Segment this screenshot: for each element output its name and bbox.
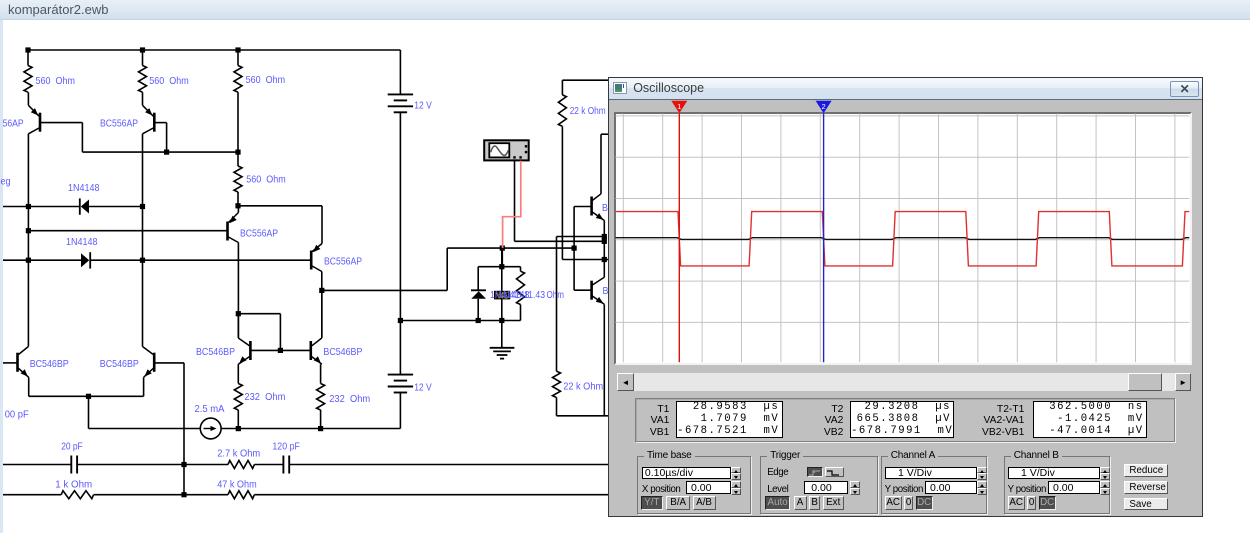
- node top rail mid: [140, 47, 145, 52]
- node D3 bottom: [476, 318, 481, 323]
- svg-text:560 Ohm: 560 Ohm: [36, 75, 76, 87]
- wire current source to Q7 node: [236, 426, 241, 431]
- graticule: [614, 112, 1192, 365]
- wire output row to probe riser: [322, 289, 447, 291]
- node top rail right: [235, 47, 240, 52]
- node D4 top: [499, 264, 504, 269]
- wire T3 collector column: [237, 243, 239, 339]
- node row1 right: [140, 204, 145, 209]
- resistor R10 of diode network: [520, 267, 522, 272]
- node T4 collector output: [319, 288, 324, 293]
- resistor R2 560 Ohm: [139, 66, 147, 93]
- wire H1: [557, 236, 605, 238]
- time base group: [637, 456, 751, 514]
- wire diode network bottom: [478, 320, 520, 322]
- wire T4 collector column: [321, 272, 323, 339]
- resistor R3 560 Ohm: [234, 66, 242, 93]
- svg-text:BC546BP: BC546BP: [196, 346, 235, 358]
- resistor R1 560 Ohm: [24, 66, 32, 93]
- wire V1 column with lower 22k: [556, 237, 558, 372]
- resistor R6 232 Ohm: [317, 384, 325, 411]
- transistor T1 BC556AP: [27, 92, 29, 105]
- diode D4 1N4148 (selected): [501, 248, 503, 291]
- svg-text:BC546BP: BC546BP: [30, 358, 69, 370]
- channel B group: [1004, 456, 1110, 514]
- svg-text:BC556AP: BC556AP: [324, 256, 362, 268]
- node emitters: [86, 394, 91, 399]
- node battery column tap: [398, 318, 403, 323]
- diode D2 1N4148: [89, 252, 91, 268]
- node Q7/Q8 base: [278, 348, 283, 353]
- wire row 1 right: [89, 206, 143, 208]
- wire row 3 to T4 base: [90, 259, 311, 261]
- svg-text:00 pF: 00 pF: [5, 409, 29, 421]
- node T2 base junction: [164, 150, 169, 155]
- wire H2 probe-A to output transistors: [515, 240, 605, 242]
- wire diode network top: [478, 266, 520, 268]
- wire R1 top: [27, 50, 29, 66]
- wire tail current feed: [88, 396, 90, 428]
- node base rail right: [235, 150, 240, 155]
- readouts: [635, 398, 1176, 442]
- resistor R9 47 k Ohm: [228, 491, 254, 499]
- transistor Q7 BC546BP (mirrored): [237, 314, 239, 338]
- wire battery to diode network: [400, 320, 478, 322]
- wire Q6 base column down: [183, 363, 185, 495]
- wire Q9 base column: [573, 207, 575, 291]
- resistor R7 2.7 k Ohm: [228, 461, 254, 469]
- current source I1 2.5 mA: [200, 418, 221, 439]
- wire probe B (red): [503, 161, 521, 248]
- svg-text:560 Ohm: 560 Ohm: [149, 75, 189, 87]
- node row2 left: [26, 228, 31, 233]
- transistor Q10 BC546BP: [590, 281, 593, 300]
- wire T1 base: [40, 122, 82, 124]
- wire probe A (black): [514, 161, 516, 242]
- node H2 end: [602, 239, 607, 244]
- wire R2 top: [142, 50, 144, 66]
- ground GND: [501, 321, 503, 348]
- node H1 end: [602, 234, 607, 239]
- svg-text:20 pF: 20 pF: [61, 441, 82, 453]
- wire top +12V rail: [28, 49, 400, 51]
- wire Q7 collector-base tie: [238, 313, 280, 315]
- svg-text:11.43: 11.43: [524, 289, 545, 301]
- node top rail left: [25, 47, 30, 52]
- svg-text:56AP: 56AP: [3, 118, 24, 130]
- channel A group: [881, 456, 987, 514]
- svg-text:12 V: 12 V: [414, 382, 432, 394]
- svg-text:1 k Ohm: 1 k Ohm: [55, 479, 92, 491]
- wire R3 to node: [237, 92, 239, 152]
- wire R4 leads: [237, 152, 239, 166]
- node Q8 emitter bottom: [318, 426, 323, 431]
- wire bottom row 2 left: [3, 494, 61, 496]
- svg-text:BC556AP: BC556AP: [100, 118, 138, 130]
- wire battery column V1 top: [399, 50, 401, 94]
- node row3 right: [140, 258, 145, 263]
- svg-text:eg: eg: [1, 176, 11, 188]
- svg-text:BC556AP: BC556AP: [240, 228, 278, 240]
- svg-text:1N4148: 1N4148: [66, 236, 98, 248]
- oscilloscope window: [608, 77, 1203, 517]
- transistor Q6 BC546BP (mirrored): [153, 353, 156, 372]
- wire base bar Q7-Q8: [250, 349, 310, 351]
- right buttons: [1124, 464, 1168, 477]
- node Q9 base column tap: [572, 246, 577, 251]
- svg-text:560 Ohm: 560 Ohm: [246, 174, 286, 186]
- svg-text:BC546BP: BC546BP: [100, 358, 139, 370]
- wire T4 emitter feed: [238, 205, 322, 207]
- transistor T2 BC556AP: [142, 92, 144, 105]
- wire H4 to Q10 collector node: [562, 259, 608, 261]
- wire bottom row capacitor C2 20 pF row: [3, 464, 71, 466]
- wire R3 top: [237, 50, 239, 66]
- svg-text:2.5 mA: 2.5 mA: [195, 403, 225, 415]
- wire R11 bottom column: [561, 126, 563, 259]
- diode D3 1N4148 (up): [477, 267, 479, 291]
- svg-text:232 Ohm: 232 Ohm: [244, 391, 285, 403]
- svg-text:2.7 k Ohm: 2.7 k Ohm: [217, 448, 260, 460]
- svg-text:22 k Ohm: 22 k Ohm: [563, 381, 603, 393]
- transistor Q9 BC546BP: [590, 197, 593, 216]
- wire red node down to D4: [501, 248, 503, 267]
- transistor Q8 BC546BP: [309, 341, 312, 360]
- svg-text:22 k Ohm: 22 k Ohm: [570, 105, 606, 117]
- battery V1 12 V: [388, 93, 413, 95]
- svg-text:47 k Ohm: 47 k Ohm: [217, 479, 257, 491]
- node row1 left: [26, 204, 31, 209]
- node row3 left: [26, 258, 31, 263]
- svg-text:12 V: 12 V: [414, 100, 432, 112]
- resistor R5 232 Ohm: [234, 384, 242, 411]
- resistor R12 22 k Ohm: [553, 371, 561, 397]
- resistor R8 1 k Ohm: [61, 491, 93, 499]
- wire T2 base: [154, 122, 166, 124]
- wire T2 collector column: [142, 134, 144, 347]
- node bottom row2: [181, 492, 186, 497]
- wire top right to 22k: [562, 79, 608, 81]
- trigger group: [760, 456, 878, 514]
- svg-text:120 pF: 120 pF: [272, 441, 300, 453]
- transistor T4 BC556AP (mirrored): [310, 251, 313, 270]
- wire node row to Q9 base: [447, 247, 574, 249]
- svg-text:Ohm: Ohm: [547, 289, 565, 301]
- transistor Q5 BC546BP: [16, 353, 19, 372]
- capacitor C2 20 pF: [70, 456, 72, 474]
- resistor R11 22 k Ohm: [561, 80, 563, 95]
- wire battery column bottom: [399, 393, 401, 429]
- resistor R4 560 Ohm: [234, 166, 242, 192]
- node D4 bottom / ground tap: [499, 318, 504, 323]
- wire input row 3 left: [3, 259, 81, 261]
- wire R12 bottom to window: [556, 398, 558, 416]
- svg-text:1N4148: 1N4148: [68, 182, 100, 194]
- svg-text:BC546BP: BC546BP: [323, 346, 362, 358]
- capacitor C3 120 pF: [282, 456, 284, 474]
- svg-text:2: 2: [822, 102, 826, 111]
- wire input row 1 left: [3, 206, 80, 208]
- battery V2 12 V: [388, 374, 413, 376]
- wire row 2 to T3 base: [28, 230, 227, 232]
- oscilloscope icon XSC1: [484, 140, 529, 160]
- wire emitter join Q5-Q6: [29, 395, 144, 397]
- node Q10 collector: [602, 257, 607, 262]
- node Q7 collector top: [236, 311, 241, 316]
- node bottom row1: [181, 462, 186, 467]
- node battery bottom corner wire to current source: [221, 428, 400, 430]
- diode D1 1N4148: [79, 198, 81, 214]
- svg-text:1: 1: [678, 102, 682, 111]
- svg-text:232 Ohm: 232 Ohm: [329, 393, 370, 405]
- wire battery column mid: [399, 112, 401, 374]
- transistor T3 BC556AP (mirrored): [237, 206, 239, 213]
- node red probe tap: [500, 246, 505, 251]
- wire T1 collector column: [27, 134, 29, 347]
- scrollbar: [617, 373, 1191, 391]
- svg-text:560 Ohm: 560 Ohm: [246, 74, 286, 86]
